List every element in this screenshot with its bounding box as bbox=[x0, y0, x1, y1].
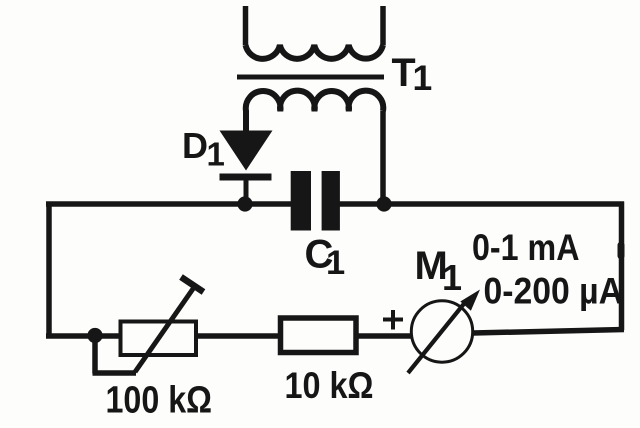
svg-text:100 kΩ: 100 kΩ bbox=[106, 380, 213, 422]
meter M1 body circle bbox=[411, 301, 472, 362]
svg-text:0-200 µA: 0-200 µA bbox=[484, 271, 624, 312]
wire wiper return horizontal bbox=[93, 370, 137, 376]
meter M1 needle bbox=[408, 300, 467, 373]
svg-text:D: D bbox=[182, 125, 208, 166]
wire top rail left segment bbox=[46, 201, 292, 207]
potentiometer wiper arrow diagonal bbox=[135, 285, 196, 373]
wire bottom rail bbox=[46, 333, 442, 339]
transformer T1 core bbox=[237, 75, 384, 80]
capacitor C1 right plate bbox=[322, 171, 340, 231]
wire meter to right vertical bbox=[473, 330, 624, 334]
node B junction dot bbox=[376, 196, 391, 211]
meter M1 needle arrowhead bbox=[460, 290, 480, 311]
ink blob on right vertical wire bbox=[618, 242, 625, 259]
potentiometer body 100 kOhm bbox=[121, 322, 197, 356]
transformer T1 secondary winding bbox=[246, 91, 383, 131]
svg-text:0-1 mA: 0-1 mA bbox=[472, 227, 580, 268]
svg-text:1: 1 bbox=[326, 244, 345, 282]
diode D1 bbox=[220, 131, 273, 181]
svg-text:1: 1 bbox=[207, 136, 225, 173]
transformer T1 primary lead right bbox=[380, 6, 386, 45]
wire secondary right lead to node B bbox=[380, 111, 386, 204]
node C junction dot bbox=[87, 328, 102, 343]
wire wiper return vertical bbox=[92, 336, 98, 374]
wire diode cathode to node A bbox=[244, 178, 249, 204]
transformer T1 primary winding bbox=[246, 45, 384, 59]
svg-text:10 kΩ: 10 kΩ bbox=[285, 365, 374, 406]
wire top rail right segment bbox=[339, 201, 624, 207]
svg-text:1: 1 bbox=[442, 257, 462, 298]
node A junction dot bbox=[237, 196, 252, 211]
potentiometer wiper arrow T-bar bbox=[181, 277, 204, 292]
resistor body 10 kOhm bbox=[281, 318, 357, 353]
wire right vertical bbox=[619, 202, 625, 331]
capacitor C1 left plate bbox=[291, 171, 311, 231]
svg-text:1: 1 bbox=[413, 58, 433, 98]
transformer T1 primary lead left bbox=[243, 6, 249, 45]
plus polarity mark bbox=[383, 310, 403, 330]
wire left vertical bbox=[46, 202, 52, 337]
